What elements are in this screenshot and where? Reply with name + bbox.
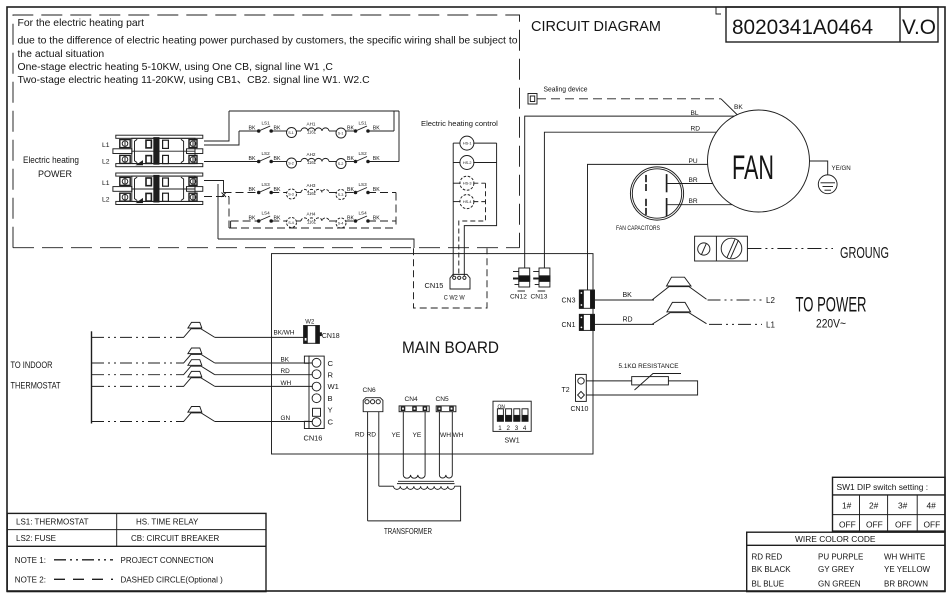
svg-text:WH: WH: [281, 380, 292, 387]
CN15 dashed box: [414, 248, 488, 308]
svg-text:BK: BK: [347, 126, 354, 132]
heater circle S-1 right: [336, 128, 346, 138]
splice hump BK: [181, 354, 215, 363]
svg-text:THERMOSTAT: THERMOSTAT: [11, 381, 61, 391]
junction X: [222, 193, 227, 198]
svg-text:S-4: S-4: [288, 221, 294, 225]
title block box: [726, 7, 938, 42]
svg-text:220V~: 220V~: [816, 317, 846, 331]
heater row 4 wire: [231, 220, 259, 222]
fan wire labels: [689, 104, 744, 205]
svg-text:BR: BR: [689, 177, 698, 184]
svg-text:LS3: LS3: [262, 182, 271, 187]
svg-text:LS2: FUSE: LS2: FUSE: [16, 534, 56, 543]
fan capacitors: [630, 167, 683, 220]
wire RD to connector: [215, 374, 313, 376]
legend dash-dot sample: [54, 559, 113, 561]
svg-text:CN13: CN13: [531, 294, 548, 301]
connector CN6: [363, 398, 383, 412]
connector CN12: [519, 268, 530, 287]
svg-text:FAN CAPACITORS: FAN CAPACITORS: [616, 226, 660, 232]
wire W2 dashed bus: [459, 183, 486, 276]
screw small: [698, 243, 710, 255]
sealing device: [528, 94, 537, 105]
svg-text:MAIN BOARD: MAIN BOARD: [402, 339, 499, 357]
svg-text:S-3: S-3: [288, 193, 294, 197]
svg-text:PU PURPLE: PU PURPLE: [818, 553, 863, 562]
wire dash-dot to L2: [708, 299, 763, 301]
heater circle S-4 right: [336, 218, 346, 228]
wire primary loop: [368, 486, 461, 521]
svg-text:BK: BK: [347, 216, 354, 222]
relay labels: [463, 142, 472, 205]
svg-text:S-1: S-1: [338, 132, 344, 136]
title CIRCUIT DIAGRAM: [531, 19, 661, 35]
svg-text:BK BLACK: BK BLACK: [752, 565, 792, 574]
transformer secondary B: [439, 475, 452, 478]
wire CN5 down pair: [438, 412, 440, 475]
wire CN6 down pair: [367, 412, 369, 521]
svg-text:BK: BK: [281, 357, 290, 364]
svg-text:YE: YE: [413, 432, 422, 439]
heater circle S-3 right: [336, 190, 346, 200]
splice hump RD: [652, 313, 707, 325]
svg-text:1161: 1161: [307, 160, 317, 165]
TO POWER 220V~: [796, 293, 867, 331]
svg-text:PROJECT CONNECTION: PROJECT CONNECTION: [121, 556, 214, 565]
splice hump BK: [652, 287, 707, 300]
svg-text:TRANSFORMER: TRANSFORMER: [384, 527, 432, 536]
transformer primary: [394, 486, 455, 489]
svg-text:FAN: FAN: [732, 149, 774, 187]
heater coil AH3: [301, 189, 329, 192]
svg-text:HS-1: HS-1: [463, 142, 472, 146]
svg-text:NOTE 2:: NOTE 2:: [15, 576, 46, 585]
transformer core: [398, 480, 454, 482]
svg-text:OFF: OFF: [866, 520, 883, 530]
corner tick near title block: [716, 7, 721, 14]
svg-text:CN10: CN10: [571, 406, 589, 413]
svg-text:BR: BR: [689, 198, 698, 205]
wire BK/WH to connector: [215, 336, 304, 338]
heater circle S-2 left: [287, 158, 297, 168]
svg-text:CN5: CN5: [436, 396, 450, 403]
part number 8020341A0464: [732, 15, 936, 39]
connector CN13: [539, 268, 550, 287]
svg-text:ON: ON: [498, 405, 506, 411]
SW1 DIP table: [833, 477, 946, 531]
fuse switch LS4 right: [354, 220, 357, 223]
svg-text:GN: GN: [281, 415, 291, 422]
svg-text:LS1: LS1: [262, 121, 271, 126]
svg-text:LS1: LS1: [359, 121, 368, 126]
svg-text:S-1: S-1: [288, 131, 294, 135]
heater coil AH1: [301, 128, 329, 131]
capacitor 2: [646, 198, 667, 216]
wire GN dash-dot field: [92, 421, 181, 423]
svg-text:1161: 1161: [307, 130, 317, 135]
svg-text:WH: WH: [453, 432, 464, 439]
svg-text:PU: PU: [689, 158, 698, 165]
svg-text:BK: BK: [249, 187, 256, 193]
svg-text:L1: L1: [102, 180, 110, 187]
svg-text:BL: BL: [691, 110, 699, 117]
fuse switch LS3 left: [257, 191, 260, 194]
svg-text:BK: BK: [249, 126, 256, 132]
svg-text:S-3: S-3: [338, 193, 344, 197]
Electric heating control label: [421, 119, 498, 128]
svg-text:1161: 1161: [307, 220, 317, 225]
wire CB1-L2 to row2: [204, 161, 239, 163]
wire dashed riser row4: [228, 197, 230, 229]
svg-text:BK: BK: [249, 216, 256, 222]
wire signal C solid: [218, 239, 414, 248]
connector CN3: [579, 290, 594, 308]
wire W right bus: [464, 143, 496, 276]
wire BK dash-dot field: [92, 362, 181, 364]
Electric heating POWER label: [23, 155, 79, 179]
connector CN5: [436, 406, 456, 412]
svg-text:4: 4: [523, 425, 527, 432]
svg-text:L1: L1: [102, 142, 110, 149]
row 2 labels: [249, 151, 381, 166]
DIP switch SW1: [493, 401, 531, 431]
wire GN to connector: [215, 421, 313, 423]
svg-text:C W2 W: C W2 W: [444, 295, 465, 302]
note text: [18, 18, 518, 86]
svg-text:YE YELLOW: YE YELLOW: [884, 565, 931, 574]
svg-text:C: C: [328, 359, 334, 368]
svg-text:OFF: OFF: [839, 520, 856, 530]
svg-text:WIRE COLOR CODE: WIRE COLOR CODE: [795, 534, 876, 544]
svg-text:LS4: LS4: [359, 211, 368, 216]
wire CB1-L1 to row1: [204, 131, 239, 145]
wire dashed row3-row4 right: [395, 193, 397, 229]
connector CN1: [579, 314, 594, 330]
svg-text:LS3: LS3: [359, 182, 368, 187]
svg-text:W1: W1: [328, 382, 339, 391]
svg-text:POWER: POWER: [38, 169, 72, 179]
svg-text:HS-2: HS-2: [463, 161, 472, 165]
svg-text:BK: BK: [347, 187, 354, 193]
svg-text:4#: 4#: [927, 501, 937, 511]
wire dash-dot to L1: [709, 323, 762, 325]
main board: [272, 254, 594, 454]
relay coil HS-2: [460, 156, 474, 170]
svg-text:S-2: S-2: [338, 162, 344, 166]
svg-text:OFF: OFF: [895, 520, 912, 530]
wire coil stubs right: [473, 142, 496, 144]
wire to GROUNG dash-dot: [747, 248, 833, 250]
relay coil HS-3 dashed: [460, 176, 474, 190]
svg-text:TO INDOOR: TO INDOOR: [11, 360, 53, 370]
svg-text:Electric heating: Electric heating: [23, 155, 79, 165]
svg-text:CN4: CN4: [405, 396, 419, 403]
fuse switch LS2 left: [257, 160, 260, 163]
wire CB2-L2 dashed: [204, 196, 229, 198]
wire BR upper: [668, 183, 713, 185]
svg-text:WH: WH: [440, 432, 451, 439]
fuse switch LS1 left: [257, 130, 260, 133]
svg-text:DASHED CIRCLE(Optional ): DASHED CIRCLE(Optional ): [121, 576, 224, 585]
svg-text:One-stage electric heating 5-1: One-stage electric heating 5-10KW, using…: [18, 62, 334, 73]
relay coil HS-4 dashed: [460, 195, 474, 209]
svg-text:CN16: CN16: [304, 434, 323, 443]
wire coil stubs left: [453, 142, 460, 144]
svg-text:CN12: CN12: [510, 294, 527, 301]
svg-text:AH4: AH4: [307, 212, 316, 217]
svg-text:2: 2: [507, 425, 511, 432]
svg-text:RD: RD: [281, 368, 291, 375]
svg-text:CN15: CN15: [425, 281, 444, 290]
svg-text:BK: BK: [347, 156, 354, 162]
circuit breaker CB2: [113, 173, 203, 205]
fuse switch LS4 left: [257, 220, 260, 223]
svg-text:CN1: CN1: [562, 322, 576, 329]
capacitor 1: [646, 174, 667, 192]
svg-text:BK: BK: [249, 156, 256, 162]
heater circle S-1 left: [287, 128, 297, 138]
connector CN15: [450, 274, 470, 289]
svg-text:BK: BK: [623, 292, 633, 299]
svg-text:CIRCUIT DIAGRAM: CIRCUIT DIAGRAM: [531, 19, 661, 35]
svg-text:HS-3: HS-3: [463, 182, 472, 186]
transformer secondary A: [403, 475, 425, 478]
svg-text:TO POWER: TO POWER: [796, 293, 867, 317]
ground terminal block: [695, 236, 748, 261]
svg-text:1#: 1#: [842, 501, 852, 511]
svg-text:S-2: S-2: [288, 162, 294, 166]
svg-text:1161: 1161: [307, 191, 317, 196]
svg-text:BK: BK: [274, 126, 281, 132]
wire color code table: [747, 532, 945, 591]
svg-text:GROUNG: GROUNG: [840, 245, 889, 262]
svg-text:L2: L2: [102, 197, 110, 204]
wire PU: [588, 164, 708, 290]
svg-text:C: C: [328, 417, 334, 426]
svg-text:WH WHITE: WH WHITE: [884, 553, 925, 562]
svg-text:RD: RD: [355, 432, 365, 439]
svg-text:HS. TIME RELAY: HS. TIME RELAY: [136, 518, 199, 527]
wire CN4 down pair: [402, 412, 404, 475]
svg-text:RD: RD: [691, 126, 701, 133]
legend dashed sample: [54, 578, 113, 580]
wire BK to connector: [215, 362, 313, 364]
svg-text:CN3: CN3: [562, 298, 576, 305]
wire BL: [525, 116, 734, 268]
wire BK to L2: [595, 299, 655, 301]
svg-text:SW1: SW1: [505, 438, 520, 445]
earth ground symbol: [818, 175, 837, 194]
svg-text:5.1KΩ RESISTANCE: 5.1KΩ RESISTANCE: [619, 363, 680, 370]
svg-text:8020341A0464: 8020341A0464: [732, 15, 873, 39]
wire RD to L1: [595, 323, 655, 325]
svg-text:For the electric heating part: For the electric heating part: [18, 18, 145, 29]
wire T2 pin1: [586, 380, 631, 382]
svg-text:GY GREY: GY GREY: [818, 565, 855, 574]
wire BK/WH dash-dot field: [92, 336, 181, 338]
fuse switch LS1 right: [354, 130, 357, 133]
svg-text:BK: BK: [373, 126, 380, 132]
connector CN16: [309, 356, 324, 428]
svg-text:YE/GN: YE/GN: [832, 165, 851, 172]
svg-text:3#: 3#: [898, 501, 908, 511]
heater row 3 wire: [224, 192, 259, 194]
heater circle S-2 right: [336, 159, 346, 169]
row 1 labels: [249, 121, 381, 136]
wire row1 right riser: [393, 111, 395, 131]
screw large: [721, 238, 742, 259]
svg-text:B: B: [328, 394, 333, 403]
svg-text:LS2: LS2: [359, 151, 368, 156]
svg-text:BK: BK: [274, 156, 281, 162]
heater circle S-3 left: [287, 189, 297, 199]
note dashed box: [13, 15, 520, 248]
relay coil HS-1: [460, 136, 474, 150]
splice hump BK/WH: [181, 329, 215, 338]
svg-text:RD RED: RD RED: [752, 553, 783, 562]
svg-text:AH3: AH3: [307, 183, 316, 188]
wire control left bus: [452, 143, 454, 276]
svg-text:AH2: AH2: [307, 152, 316, 157]
wire dashed row4 left lead: [230, 221, 232, 228]
heater row 1 wire: [239, 130, 259, 132]
wire CB2-L1 branch down: [217, 184, 219, 239]
svg-text:CN6: CN6: [363, 387, 377, 394]
wire RD dash-dot field: [92, 374, 181, 376]
svg-text:W2: W2: [305, 320, 315, 326]
svg-text:BK/WH: BK/WH: [274, 330, 295, 337]
svg-text:Electric heating control: Electric heating control: [421, 119, 498, 128]
heater circle S-4 left: [287, 218, 297, 228]
wire primary left: [379, 485, 394, 487]
wire dashed return upper: [229, 227, 396, 229]
svg-text:SW1 DIP switch setting :: SW1 DIP switch setting :: [837, 482, 929, 492]
pole labels L1 L2: [102, 142, 110, 204]
connector T2 CN10: [576, 374, 587, 401]
fuse switch LS2 right: [354, 160, 357, 163]
svg-text:LS4: LS4: [262, 211, 271, 216]
svg-text:BK: BK: [274, 187, 281, 193]
svg-text:2#: 2#: [869, 501, 879, 511]
svg-text:Y: Y: [328, 406, 333, 415]
wire sealing device to fan dashed: [537, 98, 721, 100]
svg-text:1: 1: [498, 425, 502, 432]
wire WH dash-dot field: [92, 385, 181, 387]
svg-text:L2: L2: [766, 296, 775, 305]
thermostat bracket: [91, 331, 93, 423]
svg-text:LS1: THERMOSTAT: LS1: THERMOSTAT: [16, 518, 89, 527]
svg-text:BL BLUE: BL BLUE: [752, 580, 785, 589]
fuse switch LS3 right: [354, 191, 357, 194]
splice hump GN: [181, 413, 215, 422]
wire BR lower: [668, 204, 733, 206]
svg-text:L1: L1: [766, 321, 775, 330]
svg-text:due to the difference of elect: due to the difference of electric heatin…: [18, 36, 518, 47]
svg-text:CN18: CN18: [322, 333, 340, 340]
svg-text:AH1: AH1: [307, 122, 316, 127]
svg-text:Sealing device: Sealing device: [544, 87, 588, 94]
connector CN4: [399, 406, 429, 412]
wire resistor loop: [586, 381, 697, 395]
row 4 labels: [249, 211, 381, 226]
svg-text:BK: BK: [734, 104, 743, 111]
svg-text:BK: BK: [373, 156, 380, 162]
heater row 2 wire: [239, 161, 259, 163]
svg-text:GN GREEN: GN GREEN: [818, 580, 861, 589]
svg-text:S-4: S-4: [338, 222, 344, 226]
svg-text:L2: L2: [102, 159, 110, 166]
svg-text:OFF: OFF: [924, 520, 941, 530]
svg-text:Two-stage electric heating 11-: Two-stage electric heating 11-20KW, usin…: [18, 75, 371, 86]
svg-text:YE: YE: [392, 432, 401, 439]
svg-text:BR BROWN: BR BROWN: [884, 580, 928, 589]
circuit breaker CB1: [113, 135, 203, 167]
heater coil AH2: [301, 158, 329, 161]
svg-text:3: 3: [515, 425, 519, 432]
wire right rail: [398, 111, 400, 162]
legend table: [7, 513, 266, 591]
svg-text:the actual situation: the actual situation: [18, 49, 105, 60]
svg-text:BK: BK: [274, 216, 281, 222]
splice hump WH: [181, 378, 215, 387]
resistor 5.1K thermistor: [632, 377, 669, 385]
fan motor: [708, 110, 810, 212]
svg-text:LS2: LS2: [262, 151, 271, 156]
wire CB2-L1 to row3: [204, 181, 224, 193]
wire WH to connector: [215, 385, 313, 387]
wire top rail: [229, 110, 399, 112]
svg-text:BK: BK: [373, 187, 380, 193]
svg-text:V.O: V.O: [902, 15, 936, 39]
svg-text:RD: RD: [623, 317, 633, 324]
svg-text:CB: CIRCUIT BREAKER: CB: CIRCUIT BREAKER: [131, 534, 220, 543]
heater coil AH4: [301, 218, 329, 221]
row 3 labels: [249, 182, 381, 197]
wire fan to earth: [810, 161, 828, 175]
wire RD: [544, 132, 716, 268]
svg-text:HS-4: HS-4: [463, 200, 472, 204]
splice hump RD: [181, 366, 215, 375]
svg-text:NOTE 1:: NOTE 1:: [15, 556, 46, 565]
connector CN18: [304, 326, 320, 344]
svg-text:R: R: [328, 371, 334, 380]
svg-text:BK: BK: [373, 216, 380, 222]
wire CB1-L1 to top rail: [204, 111, 229, 141]
svg-text:T2: T2: [562, 387, 570, 394]
